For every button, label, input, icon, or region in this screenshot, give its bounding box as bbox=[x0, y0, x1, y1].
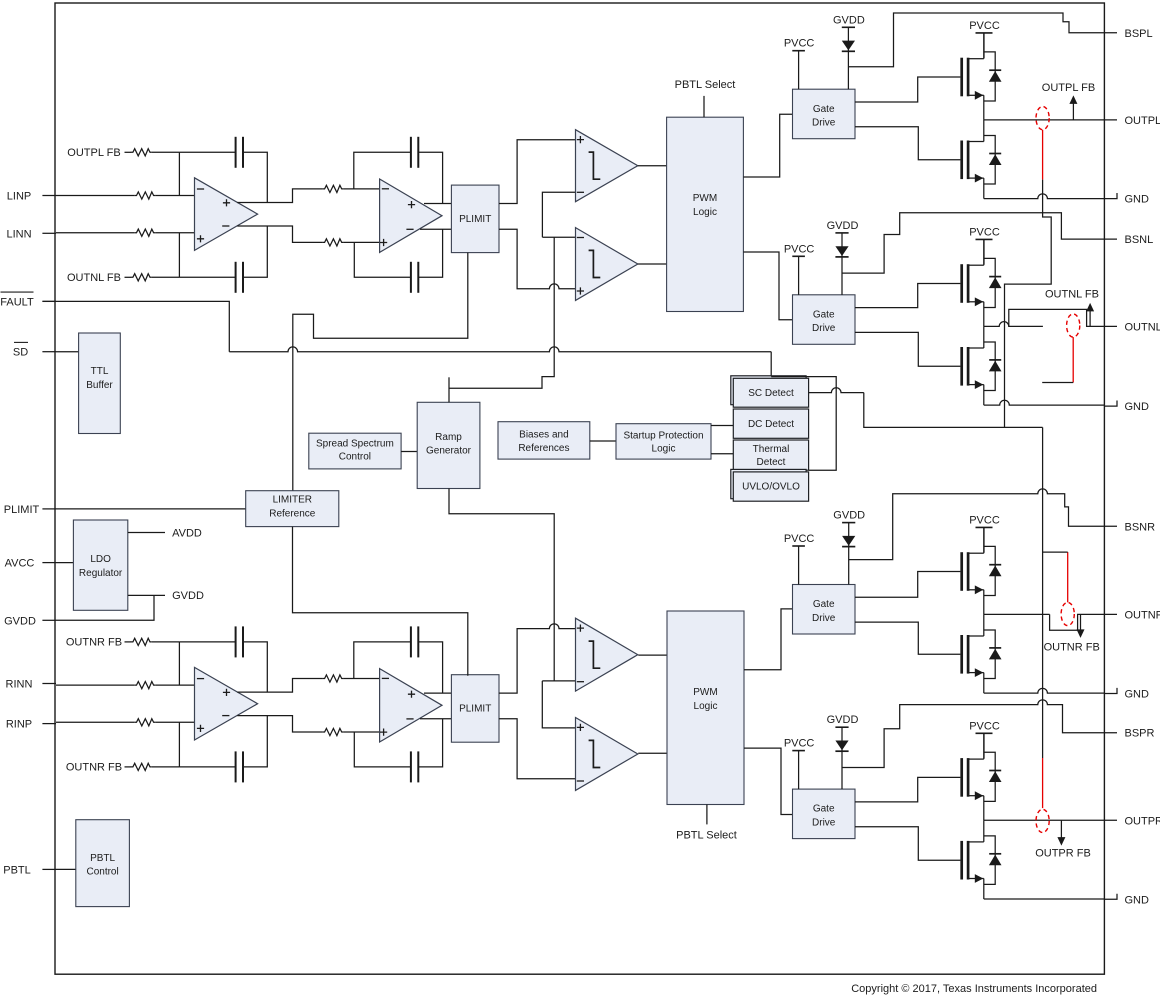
pin OUTNL bbox=[1125, 321, 1160, 333]
diode D3 (bootstrap charge) bbox=[842, 536, 855, 547]
wire amp2 + out to PLIMIT bbox=[424, 203, 451, 205]
svg-text:Drive: Drive bbox=[812, 817, 836, 828]
resistor R2 (LINP) bbox=[134, 192, 155, 199]
diode D4 (bootstrap charge) bbox=[835, 741, 848, 752]
wire PBTL to control bbox=[56, 868, 76, 870]
op-amp U4 (second stage R) bbox=[380, 669, 442, 742]
svg-text:DC Detect: DC Detect bbox=[748, 419, 794, 430]
wire GVDD pin riser bbox=[56, 595, 154, 620]
pin GND 4 bbox=[1104, 894, 1149, 907]
svg-text:Gate: Gate bbox=[813, 104, 835, 115]
svg-text:PLIMIT: PLIMIT bbox=[459, 704, 491, 715]
wire C1 to + output bbox=[243, 152, 267, 202]
svg-text:Generator: Generator bbox=[426, 446, 472, 457]
pin OUTNR bbox=[1125, 609, 1160, 621]
svg-text:Reference: Reference bbox=[269, 509, 316, 520]
wire LINP input bbox=[56, 195, 134, 197]
wire junction drop to RINN bbox=[178, 642, 180, 685]
wire OUTNR FB to junction bbox=[152, 766, 180, 768]
svg-text:GND: GND bbox=[1125, 401, 1150, 413]
block Gate Drive 1 bbox=[793, 89, 856, 139]
wire stage-2 top feedback right bbox=[418, 152, 442, 203]
transistor Q6 (low side OUTNR) bbox=[962, 614, 1002, 693]
svg-text:PBTL Select: PBTL Select bbox=[675, 79, 736, 91]
svg-text:UVLO/OVLO: UVLO/OVLO bbox=[742, 482, 800, 493]
wire bootstrap BSNR route bbox=[849, 489, 1117, 560]
transistor Q7 (high side OUTPR) bbox=[962, 733, 1002, 820]
wire ramp output up stub bbox=[448, 377, 450, 402]
svg-text:LIMITER: LIMITER bbox=[273, 495, 312, 506]
svg-text:Logic: Logic bbox=[693, 207, 717, 218]
svg-text:OUTPL FB: OUTPL FB bbox=[1042, 82, 1095, 94]
svg-text:Thermal: Thermal bbox=[753, 444, 790, 455]
wire OUTNR jog under bbox=[1050, 614, 1117, 630]
svg-text:RINP: RINP bbox=[6, 719, 32, 731]
svg-text:PVCC: PVCC bbox=[969, 20, 1000, 32]
wire ramp output down bbox=[449, 489, 554, 681]
pin BSPL bbox=[1125, 28, 1153, 40]
red sense wire OUTPL bbox=[1042, 130, 1044, 180]
svg-text:GVDD: GVDD bbox=[827, 714, 859, 726]
wire feedback row top bbox=[179, 151, 235, 153]
wire ramp to comp U8 + bbox=[542, 681, 575, 728]
sense ellipse OUTPL bbox=[1036, 107, 1049, 130]
block SC Detect shadow bbox=[731, 376, 806, 405]
capacitor C7 (stage-1 top feedback) bbox=[236, 626, 243, 657]
wire comp U5 output bbox=[638, 165, 667, 167]
comparator U7 (PWM R top) bbox=[576, 618, 638, 691]
wire C7 to + output bbox=[243, 642, 267, 692]
capacitor C3 (stage-2 top feedback) bbox=[411, 137, 418, 168]
wire sense chain middle section bbox=[1042, 427, 1044, 758]
capacitor C4 (stage-2 bottom feedback) bbox=[411, 262, 418, 293]
power PVCC (bridge OUTPR) bbox=[976, 733, 993, 758]
transistor Q3 (high side OUTNL) bbox=[962, 239, 1002, 326]
svg-text:PVCC: PVCC bbox=[784, 738, 815, 750]
power GVDD (gate drive 1) bbox=[842, 27, 855, 89]
wire LINP to opamp bbox=[155, 195, 194, 197]
block UVLO/OVLO bbox=[733, 472, 808, 501]
wire OUTPL sense chain down bbox=[1005, 180, 1052, 428]
svg-text:Control: Control bbox=[339, 452, 371, 463]
wire OUTNR output from FETs bbox=[984, 613, 1050, 615]
resistor R9 (RINP) bbox=[134, 719, 155, 726]
transistor Q5 (high side OUTNR) bbox=[962, 527, 1002, 614]
wire Gate Drive 4 to high-side gate bbox=[855, 777, 960, 802]
wire stage-1 - output bbox=[237, 716, 322, 732]
svg-text:Buffer: Buffer bbox=[86, 380, 113, 391]
svg-text:Drive: Drive bbox=[812, 613, 836, 624]
wire OUTNL sense stub bbox=[1042, 382, 1073, 384]
svg-text:Detect: Detect bbox=[757, 457, 786, 468]
block Ramp Generator bbox=[417, 402, 480, 488]
wire stage-2 bottom feedback bbox=[354, 242, 411, 277]
wire PLIMIT pin to LIMITER bbox=[56, 508, 246, 510]
block PLIMIT (L) bbox=[451, 185, 499, 253]
power PVCC (bridge OUTNR) bbox=[976, 527, 993, 552]
wire ramp output up route bbox=[449, 237, 554, 388]
svg-text:Ramp: Ramp bbox=[435, 432, 462, 443]
wire Gate Drive 1 to high-side gate bbox=[855, 77, 960, 102]
svg-text:PVCC: PVCC bbox=[969, 514, 1000, 526]
wire bootstrap BSPL route bbox=[848, 13, 1117, 67]
wire RINP to opamp bbox=[155, 721, 194, 723]
wire Gate Drive 3 to low-side gate bbox=[855, 622, 960, 654]
svg-text:OUTNR: OUTNR bbox=[1125, 609, 1160, 621]
svg-text:Gate: Gate bbox=[813, 309, 835, 320]
sense ellipse OUTPR bbox=[1036, 809, 1049, 832]
svg-text:Gate: Gate bbox=[813, 599, 835, 610]
block PBTL Control bbox=[76, 820, 130, 907]
wire feedback row top bbox=[179, 641, 235, 643]
pin GND 2 bbox=[1104, 401, 1149, 414]
svg-text:References: References bbox=[518, 443, 569, 454]
svg-text:GVDD: GVDD bbox=[172, 590, 204, 602]
power PVCC (gate drive 2) bbox=[792, 256, 805, 295]
svg-text:GVDD: GVDD bbox=[827, 220, 859, 232]
svg-text:BSPL: BSPL bbox=[1125, 28, 1153, 40]
pin GND 3 bbox=[1104, 688, 1149, 701]
wire comp U6 output bbox=[638, 263, 667, 265]
wire bootstrap BSPR route bbox=[842, 700, 1117, 768]
wire RINN to opamp bbox=[155, 684, 194, 686]
wire OUTNR FB stub bbox=[125, 641, 132, 643]
block PLIMIT (R) bbox=[451, 675, 499, 743]
svg-text:OUTPR: OUTPR bbox=[1125, 815, 1160, 827]
block LDO Regulator bbox=[73, 520, 127, 610]
resistor R4 (OUTNL FB) bbox=[131, 274, 152, 281]
block Gate Drive 3 bbox=[793, 585, 856, 635]
pin RINN bbox=[6, 679, 56, 691]
svg-text:PWM: PWM bbox=[693, 193, 717, 204]
pin GVDD bbox=[4, 615, 56, 627]
wire feedback row bottom bbox=[179, 276, 235, 278]
wire GVDD output bbox=[128, 594, 165, 596]
svg-text:PWM: PWM bbox=[693, 687, 717, 698]
svg-text:Startup Protection: Startup Protection bbox=[623, 430, 703, 441]
svg-text:OUTPL FB: OUTPL FB bbox=[67, 147, 120, 159]
block Startup Protection Logic bbox=[616, 424, 711, 459]
wire AVDD output bbox=[128, 532, 165, 534]
pin LINP bbox=[7, 191, 56, 203]
svg-text:PLIMIT: PLIMIT bbox=[4, 504, 40, 516]
resistor R7 (OUTNR FB) bbox=[131, 638, 152, 645]
resistor R6 (interstage bottom) bbox=[322, 239, 343, 246]
svg-text:PVCC: PVCC bbox=[784, 533, 815, 545]
wire ramp to comp U7 - bbox=[542, 680, 575, 682]
svg-text:GND: GND bbox=[1125, 894, 1150, 906]
transistor Q2 (low side OUTPL) bbox=[962, 120, 1002, 199]
wire SD to TTL Buffer bbox=[56, 351, 79, 353]
wire stage-2 bottom feedback right bbox=[418, 229, 442, 277]
comparator U8 (PWM R bottom) bbox=[576, 718, 638, 791]
wire startup to DC Detect bbox=[711, 425, 733, 427]
wire PWM-R out2 to Gate Drive 4 bbox=[744, 748, 793, 814]
wire startup to Thermal Detect bbox=[711, 453, 733, 455]
block DC Detect bbox=[733, 409, 808, 438]
svg-text:GVDD: GVDD bbox=[833, 510, 865, 522]
wire OUTNR sense stub bbox=[1043, 551, 1068, 553]
wire amp2 + out to PLIMIT bbox=[424, 692, 451, 694]
wire PLIMIT-R out1 to comp U7 + bbox=[499, 624, 576, 693]
arrow OUTPL FB bbox=[1069, 95, 1077, 120]
svg-text:FAULT: FAULT bbox=[0, 296, 34, 308]
svg-text:BSPR: BSPR bbox=[1125, 728, 1155, 740]
wire LINN input bbox=[56, 232, 134, 234]
wire PLIMIT-L out1 to comp U5 + bbox=[499, 140, 576, 204]
block Biases and References bbox=[498, 422, 590, 459]
wire AVCC to LDO bbox=[56, 562, 73, 564]
svg-text:OUTNL: OUTNL bbox=[1125, 321, 1160, 333]
wire stage-2 top feedback right bbox=[418, 642, 442, 693]
wire PBTL Select stub top bbox=[703, 96, 705, 117]
svg-text:Logic: Logic bbox=[652, 444, 676, 455]
pin PLIMIT bbox=[4, 504, 56, 516]
wire GND line OUTPL bbox=[984, 194, 1105, 199]
red sense wire OUTPR bbox=[1042, 758, 1044, 808]
svg-text:LINP: LINP bbox=[7, 191, 31, 203]
svg-text:Drive: Drive bbox=[812, 118, 836, 129]
comparator U6 (PWM L bottom) bbox=[576, 228, 638, 301]
wire LIMITER ref to PLIMIT-L bbox=[293, 253, 468, 491]
svg-text:OUTNR FB: OUTNR FB bbox=[66, 636, 122, 648]
svg-text:OUTNL FB: OUTNL FB bbox=[67, 272, 121, 284]
svg-text:GVDD: GVDD bbox=[4, 615, 36, 627]
arrow OUTPR FB bbox=[1057, 820, 1065, 845]
svg-text:LDO: LDO bbox=[90, 554, 111, 565]
wire PWM-R out1 to Gate Drive 3 bbox=[744, 609, 793, 670]
svg-text:Control: Control bbox=[86, 867, 118, 878]
wire stage-1 + output bbox=[237, 679, 322, 693]
wire protection bus bbox=[229, 347, 771, 352]
power PVCC (gate drive 4) bbox=[792, 751, 805, 790]
pin LINN bbox=[6, 228, 56, 240]
block TTL Buffer bbox=[79, 333, 121, 434]
svg-text:PBTL: PBTL bbox=[3, 864, 31, 876]
wire amp2 - out to PLIMIT bbox=[420, 718, 451, 720]
transistor Q8 (low side OUTPR) bbox=[962, 820, 1002, 899]
wire OUTNL FB stub bbox=[125, 276, 132, 278]
wire comp U7 output bbox=[638, 654, 667, 656]
wire Gate Drive 3 to high-side gate bbox=[855, 572, 960, 598]
wire LINN to opamp bbox=[155, 232, 194, 234]
wire Gate Drive 1 to low-side gate bbox=[855, 127, 960, 160]
svg-text:GND: GND bbox=[1125, 689, 1150, 701]
wire interstage top to amp2 bbox=[343, 678, 379, 680]
wire GND line OUTNL bbox=[984, 400, 1105, 405]
wire GND line OUTNR bbox=[984, 688, 1105, 693]
svg-text:SD: SD bbox=[13, 347, 28, 359]
pin BSPR bbox=[1125, 728, 1155, 740]
resistor R8 (RINN) bbox=[134, 682, 155, 689]
wire cap to - output bbox=[243, 716, 267, 767]
power PVCC (bridge OUTPL) bbox=[976, 33, 993, 58]
pin RINP bbox=[6, 719, 56, 731]
svg-text:OUTNR FB: OUTNR FB bbox=[1044, 642, 1100, 654]
wire RINN input bbox=[56, 684, 134, 686]
wire PWM-L out2 to Gate Drive 2 bbox=[743, 252, 792, 320]
svg-text:Copyright © 2017, Texas Instru: Copyright © 2017, Texas Instruments Inco… bbox=[851, 983, 1097, 995]
power PVCC (gate drive 1) bbox=[792, 51, 805, 89]
resistor R10 (OUTNR FB) bbox=[131, 763, 152, 770]
wire cap to - output bbox=[243, 226, 267, 277]
capacitor C10 (stage-2 bottom feedback) bbox=[411, 751, 418, 782]
wire OUTPL FB stub bbox=[125, 151, 132, 153]
wire Gate Drive 4 to low-side gate bbox=[855, 827, 960, 861]
wire SC Detect sense line bbox=[809, 388, 864, 393]
diode D1 (bootstrap charge) bbox=[842, 41, 855, 52]
svg-text:RINN: RINN bbox=[6, 679, 33, 691]
wire interstage top to amp2 bbox=[343, 188, 379, 190]
power PVCC (gate drive 3) bbox=[792, 546, 805, 585]
wire OUTNL jog over bbox=[1009, 309, 1117, 326]
capacitor C2 (stage-1 bottom feedback) bbox=[236, 262, 243, 293]
svg-text:PBTL: PBTL bbox=[90, 853, 115, 864]
svg-text:PVCC: PVCC bbox=[784, 243, 815, 255]
wire bootstrap BSNL route bbox=[842, 213, 1117, 273]
pin SD bbox=[13, 342, 56, 358]
block LIMITER Reference bbox=[246, 491, 339, 527]
op-amp U1 (input amplifier L) bbox=[195, 178, 258, 251]
arrow OUTNR FB bbox=[1077, 614, 1085, 638]
svg-text:GVDD: GVDD bbox=[833, 14, 865, 26]
wire junction drop to LINP bbox=[178, 152, 180, 195]
block PWM Logic R bbox=[667, 611, 744, 805]
comparator U5 (PWM L top) bbox=[576, 130, 638, 202]
block Thermal Detect bbox=[733, 440, 808, 470]
wire OUTPL output line bbox=[984, 119, 1117, 121]
block SC Detect bbox=[733, 378, 808, 407]
wire PWM-L out1 to Gate Drive 1 bbox=[743, 114, 792, 177]
sense ellipse OUTNR bbox=[1061, 602, 1074, 625]
capacitor C8 (stage-1 bottom feedback) bbox=[236, 751, 243, 782]
svg-text:BSNL: BSNL bbox=[1125, 234, 1154, 246]
svg-text:OUTPL: OUTPL bbox=[1125, 115, 1160, 127]
diode D2 (bootstrap charge) bbox=[835, 246, 848, 257]
wire comp U8 output bbox=[638, 752, 667, 754]
svg-text:PBTL Select: PBTL Select bbox=[676, 829, 737, 841]
svg-text:Gate: Gate bbox=[813, 804, 835, 815]
svg-text:OUTPR FB: OUTPR FB bbox=[1035, 848, 1091, 860]
wire junction rise to LINN bbox=[178, 233, 180, 278]
wire OUTNR FB stub bbox=[125, 766, 132, 768]
svg-text:OUTNR FB: OUTNR FB bbox=[66, 761, 122, 773]
transistor Q1 (high side OUTPL) bbox=[962, 33, 1002, 120]
wire ramp to comp U6 - bbox=[542, 236, 575, 238]
pin OUTPR bbox=[1125, 815, 1160, 827]
svg-text:PVCC: PVCC bbox=[784, 38, 815, 50]
wire junction rise to RINP bbox=[178, 722, 180, 767]
svg-text:BSNR: BSNR bbox=[1125, 521, 1156, 533]
power GVDD (gate drive 4) bbox=[835, 727, 848, 789]
op-amp U2 (second stage L) bbox=[380, 179, 442, 252]
block UVLO/OVLO shadow bbox=[731, 469, 806, 498]
pin AVCC bbox=[5, 558, 56, 570]
wire PLIMIT-R out2 to comp U8 - bbox=[499, 719, 576, 779]
capacitor C9 (stage-2 top feedback) bbox=[411, 626, 418, 657]
wire RINP input bbox=[56, 721, 134, 723]
sense ellipse OUTNL bbox=[1067, 314, 1080, 337]
resistor R5 (interstage top) bbox=[322, 185, 343, 192]
wire OUTNL FB to junction bbox=[152, 276, 180, 278]
wire protection bus to SC Detect bbox=[770, 352, 772, 379]
arrow OUTNL FB bbox=[1086, 303, 1094, 327]
wire amp2 - out to PLIMIT bbox=[420, 228, 451, 230]
wire comparator - bus L bbox=[542, 192, 575, 237]
wire stage-2 bottom feedback bbox=[354, 732, 411, 767]
pin FAULT bbox=[0, 292, 56, 308]
wire stage-2 top feedback bbox=[354, 152, 411, 189]
wire stage-1 + output bbox=[237, 189, 322, 203]
svg-text:SC Detect: SC Detect bbox=[748, 388, 794, 399]
resistor R3 (LINN) bbox=[134, 229, 155, 236]
wire GND line OUTPR bbox=[984, 898, 1105, 900]
wire PBTL Select stub bottom bbox=[706, 805, 708, 825]
resistor R1 (OUTPL FB) bbox=[131, 149, 152, 156]
wire OUTNL output from FETs bbox=[984, 322, 1043, 327]
svg-text:Biases and: Biases and bbox=[519, 430, 568, 441]
svg-text:PVCC: PVCC bbox=[969, 720, 1000, 732]
pin GND 1 bbox=[1104, 193, 1149, 206]
pin BSNR bbox=[1125, 521, 1156, 533]
red sense wire OUTNL bbox=[1072, 337, 1074, 382]
wire Gate Drive 2 to low-side gate bbox=[855, 332, 960, 366]
block Spread Spectrum Control bbox=[309, 433, 401, 469]
wire stage-1 - output bbox=[237, 226, 322, 242]
wire SSC to Ramp Generator bbox=[401, 451, 417, 453]
block Gate Drive 2 bbox=[793, 295, 856, 345]
power PVCC (bridge OUTNL) bbox=[976, 239, 993, 264]
svg-text:Regulator: Regulator bbox=[79, 568, 123, 579]
pin BSNL bbox=[1125, 234, 1154, 246]
resistor R12 (interstage bottom) bbox=[322, 728, 343, 735]
wire biases to startup bbox=[590, 440, 616, 442]
pin PBTL bbox=[3, 864, 56, 876]
wire feedback row bottom bbox=[179, 766, 235, 768]
svg-text:AVCC: AVCC bbox=[5, 558, 35, 570]
wire stack right loop bbox=[771, 377, 836, 471]
svg-text:Drive: Drive bbox=[812, 323, 836, 334]
wire interstage bottom to amp2 bbox=[343, 241, 379, 243]
wire OUTNR FB to junction bbox=[152, 641, 180, 643]
wire FAULT net bbox=[42, 301, 229, 351]
power GVDD (gate drive 3) bbox=[842, 523, 855, 585]
wire stage-2 top feedback bbox=[354, 642, 411, 679]
svg-text:GND: GND bbox=[1125, 194, 1150, 206]
svg-text:Logic: Logic bbox=[694, 701, 718, 712]
svg-text:Spread Spectrum: Spread Spectrum bbox=[316, 439, 394, 450]
op-amp U3 (input amplifier R) bbox=[195, 667, 258, 740]
wire stage-2 bottom feedback right bbox=[418, 719, 442, 767]
block Gate Drive 4 bbox=[793, 789, 856, 839]
power GVDD (gate drive 2) bbox=[835, 233, 848, 295]
wire OUTPR output line bbox=[984, 819, 1117, 821]
svg-text:AVDD: AVDD bbox=[172, 527, 202, 539]
svg-text:TTL: TTL bbox=[91, 366, 109, 377]
block PWM Logic L bbox=[667, 117, 744, 311]
wire PLIMIT-L out2 to comp U6 + bbox=[499, 229, 576, 289]
svg-text:LINN: LINN bbox=[6, 228, 31, 240]
wire interstage bottom to amp2 bbox=[343, 731, 379, 733]
wire LIMITER ref to PLIMIT-R bbox=[293, 527, 468, 676]
red sense wire OUTNR bbox=[1067, 552, 1069, 602]
svg-text:PLIMIT: PLIMIT bbox=[459, 214, 491, 225]
wire OUTPL FB to junction bbox=[152, 151, 180, 153]
wire Gate Drive 2 to high-side gate bbox=[855, 284, 960, 308]
resistor R11 (interstage top) bbox=[322, 675, 343, 682]
transistor Q4 (low side OUTNL) bbox=[962, 326, 1002, 405]
svg-text:OUTNL FB: OUTNL FB bbox=[1045, 289, 1099, 301]
